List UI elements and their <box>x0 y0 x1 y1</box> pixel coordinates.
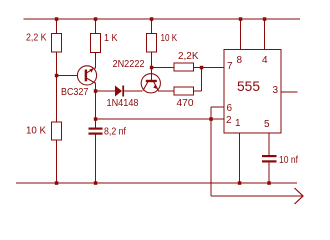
wire bottom ground rail <box>16 182 297 184</box>
wire 10K to pin7 node <box>151 52 153 68</box>
svg-text:BC327: BC327 <box>61 87 89 98</box>
wire column B top (rail to 1K) <box>95 19 97 34</box>
transistor 2N2222 emitter diagonal <box>154 82 159 91</box>
node dot diode anode <box>94 89 98 93</box>
wire pin 5 to capacitor <box>268 133 270 155</box>
svg-text:7: 7 <box>227 61 233 72</box>
resistor 2,2K horizontal <box>174 63 194 71</box>
svg-text:8: 8 <box>237 55 243 66</box>
wire 10nf capacitor to ground <box>268 163 270 184</box>
svg-text:3: 3 <box>273 85 279 96</box>
capacitor 10 nf plates <box>262 155 277 157</box>
svg-text:1 K: 1 K <box>104 33 118 44</box>
wire column A bottom (10K to ground rail) <box>56 140 58 183</box>
svg-text:1: 1 <box>235 118 241 129</box>
wire column C top (rail to 10K) <box>151 19 153 34</box>
svg-text:5: 5 <box>264 119 270 130</box>
svg-text:2,2 K: 2,2 K <box>26 33 47 44</box>
wire diode cathode to 2N2222 <box>124 90 143 92</box>
node dot trigger-capacitor <box>94 117 98 121</box>
node dot ground-pin1 <box>238 181 242 185</box>
wire pin7 node to 2,2K horizontal <box>152 67 175 69</box>
wire 2N2222 to 470 <box>158 90 174 92</box>
resistor 10K left vertical <box>52 122 62 140</box>
node dot ground-10K <box>55 181 59 185</box>
wire BC327 base <box>57 75 79 77</box>
wire top supply rail <box>24 18 301 20</box>
transistor 2N2222 emitter arrow <box>153 84 157 89</box>
svg-text:555: 555 <box>237 79 260 94</box>
node dot pin7 junction <box>150 66 154 70</box>
svg-text:8,2 nf: 8,2 nf <box>104 127 126 138</box>
svg-text:2,2K: 2,2K <box>178 51 199 62</box>
node dot 2,2K-470 corner <box>200 66 204 70</box>
node dot BC327 base <box>55 74 59 78</box>
node dot pin6-pin2 <box>209 117 213 121</box>
wire column A middle (2,2K to 10K) <box>56 52 58 122</box>
wire pin 4 to rail <box>264 19 266 50</box>
resistor 470 horizontal <box>174 87 194 95</box>
wire column B (diode node down to capacitor) <box>95 91 97 128</box>
wire column B (capacitor to ground rail) <box>95 135 97 184</box>
svg-text:4: 4 <box>262 55 268 66</box>
wire 1K to BC327 emitter <box>95 53 97 69</box>
svg-text:6: 6 <box>227 103 233 114</box>
node dot rail-2,2K <box>55 17 59 21</box>
wire corner up to pin7 node <box>201 68 203 92</box>
diode 1N4148 cathode bar <box>122 86 124 97</box>
wire BC327 collector to diode node <box>95 83 97 92</box>
wire pin 1 to ground <box>239 133 241 183</box>
wire output arrow horizontal <box>211 195 303 197</box>
svg-text:2: 2 <box>226 115 232 126</box>
svg-text:10 K: 10 K <box>26 126 46 137</box>
arrow head output <box>295 188 304 204</box>
node dot ground-capacitor <box>94 181 98 185</box>
wire pin 3 output <box>281 91 298 93</box>
svg-text:10 K: 10 K <box>161 33 178 44</box>
transistor Q2 2N2222 circle <box>141 74 160 93</box>
transistor 2N2222 left diagonal <box>143 82 148 91</box>
transistor BC327 base bar <box>85 70 87 82</box>
wire pin6 to pin2 link <box>210 107 212 119</box>
wire pin 2 to capacitor node <box>96 118 225 120</box>
resistor 2,2K left vertical <box>52 34 62 53</box>
wire trigger node down <box>210 119 212 196</box>
diode 1N4148 triangle <box>115 86 122 97</box>
node dot rail-10K <box>150 17 154 21</box>
transistor Q1 BC327 circle <box>77 66 96 85</box>
transistor BC327 collector diagonal <box>87 78 95 83</box>
node dot rail-1K <box>94 17 98 21</box>
svg-text:1N4148: 1N4148 <box>107 98 139 109</box>
node dot ground-10nf <box>267 181 271 185</box>
transistor BC327 emitter arrow <box>89 68 93 72</box>
resistor 1K vertical <box>91 34 101 53</box>
wire column A top (rail to 2,2K) <box>56 19 58 34</box>
wire 2,2K to 555 pin 7 <box>194 67 225 69</box>
wire pin 8 to rail <box>240 19 242 50</box>
transistor 2N2222 base bar <box>146 80 157 82</box>
wire 470 right to corner <box>194 90 202 92</box>
node dot rail-pin8 <box>239 17 243 21</box>
resistor 10K middle vertical <box>147 34 157 53</box>
svg-text:10 nf: 10 nf <box>279 155 298 166</box>
node dot rail-pin4 <box>263 17 267 21</box>
svg-text:470: 470 <box>177 98 194 109</box>
svg-text:2N2222: 2N2222 <box>113 59 145 70</box>
wire pin 6 stub <box>211 106 224 108</box>
op-amp 555 IC body <box>224 50 281 134</box>
wire diode anode <box>96 90 116 92</box>
transistor BC327 emitter diagonal <box>87 68 95 73</box>
wire 2N2222 collector lead <box>150 68 152 81</box>
capacitor 8,2 nf plates <box>89 128 103 130</box>
